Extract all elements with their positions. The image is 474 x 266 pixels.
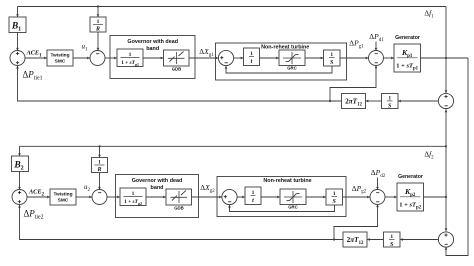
wire Df1 right loop to tie sum 2 (445, 58, 468, 256)
svg-text:1: 1 (129, 52, 132, 58)
label DXg1 (199, 47, 214, 58)
block integrator 1/S turbine 1 (324, 50, 341, 66)
block GRC 2 (rate limiter) (280, 189, 306, 210)
label DPd2 (371, 168, 386, 179)
wire turbine sum to 1/t (234, 57, 244, 60)
wire generator 2 output Df2 (424, 196, 448, 198)
block governor with dead band 1 (outer) (110, 36, 195, 79)
svg-text:SMC: SMC (58, 198, 69, 204)
svg-text:Generator: Generator (398, 174, 423, 180)
summing junction ACE1 (10, 51, 25, 66)
label DPg2 (352, 184, 367, 195)
svg-text:GDB: GDB (172, 67, 182, 72)
wire ACE to SMC (27, 196, 50, 199)
wire DPtie1 to ACE sum (16, 66, 341, 101)
wire 1/R2 to governor sum (98, 173, 101, 190)
wire tie sum to 1/S 1 (398, 100, 438, 103)
label DPtie1 (23, 70, 43, 82)
wire B2 to ACE sum (18, 172, 21, 190)
wire 1/t to GRC (261, 196, 280, 199)
summing junction tie frequency compare 2 (438, 232, 453, 247)
svg-text:Non-reheat turbine: Non-reheat turbine (263, 178, 311, 184)
label Df2 (424, 150, 434, 161)
label ACE2 (28, 189, 45, 198)
svg-text:GRC: GRC (287, 66, 297, 71)
summing junction governor input 2 (92, 190, 107, 205)
wire u1 (73, 57, 90, 60)
wire u2 (76, 196, 92, 199)
wire 1/t to GRC (260, 57, 280, 60)
wire generator sum to generator (384, 57, 395, 60)
block non-reheat turbine 2 (outer) (217, 177, 346, 217)
wire Df1 feedback top line (18, 6, 447, 8)
svg-text:Governor with dead: Governor with dead (132, 178, 183, 184)
summing junction tie frequency compare 1 (438, 93, 453, 108)
svg-text:R: R (96, 167, 101, 173)
summing junction turbine 2 (222, 189, 237, 204)
svg-text:1 + sTg2: 1 + sTg2 (124, 199, 142, 206)
block Twisting SMC 2 (50, 189, 76, 205)
wire turbine sum to 1/t (237, 196, 245, 199)
wire tie sum to 1/S 2 (400, 238, 438, 241)
svg-text:GDB: GDB (174, 206, 184, 211)
wire DPtie1 branch to generator sum (329, 65, 377, 102)
label Generator 1 (395, 35, 420, 41)
block 2piT12 1 (342, 94, 366, 109)
block B1 (9, 17, 26, 33)
block generator Kp1/(1+sTp1) (394, 44, 421, 72)
block 1/t 2 (245, 187, 261, 205)
wire generator sum to generator (385, 196, 397, 199)
label DPd1 (369, 32, 384, 43)
label DXg2 (200, 183, 215, 194)
wire DPg2 (343, 196, 371, 199)
block 1/t 1 (244, 48, 260, 66)
wire DPtie2 branch to generator sum (333, 204, 379, 240)
svg-text:GRC: GRC (288, 205, 298, 210)
svg-text:Governor with dead: Governor with dead (127, 39, 178, 45)
block 2piT12 2 (343, 232, 367, 247)
svg-text:SMC: SMC (55, 59, 66, 65)
block Twisting SMC 1 (47, 50, 73, 66)
wire 1/S to 2piT12 1 (366, 100, 382, 103)
wire 1/R1 to governor sum (97, 32, 100, 51)
block GDB 1 (dead band) (164, 50, 190, 72)
wire 1/S to 2piT12 2 (367, 238, 384, 241)
wire GRC to 1/S (306, 196, 326, 199)
block non-reheat turbine 1 (outer) (216, 43, 347, 80)
svg-text:1: 1 (333, 191, 336, 197)
label Df1 (424, 9, 434, 20)
block generator Kp2/(1+sTp2) (397, 183, 424, 211)
wire topline to 1/R2 (98, 145, 101, 157)
summing junction generator input 2 (370, 190, 385, 205)
label u2 (84, 183, 91, 193)
block integrator 1/S turbine 2 (326, 189, 343, 205)
wire governor sum to governor (105, 57, 117, 60)
block B2 (12, 156, 29, 172)
label Generator 2 (398, 174, 423, 180)
svg-text:1: 1 (250, 51, 253, 57)
wire Df2 bus (445, 146, 448, 231)
wire DPtie2 to ACE sum (18, 205, 343, 240)
label DPg1 (349, 39, 364, 50)
svg-text:1: 1 (98, 160, 101, 166)
label u1 (82, 43, 89, 53)
block tie integrator 1/S 2 (384, 232, 401, 248)
svg-text:band: band (151, 185, 164, 191)
svg-text:Generator: Generator (395, 35, 420, 41)
wire DXg2 (192, 196, 222, 199)
label ACE1 (25, 50, 42, 59)
wire governor sum to governor (107, 196, 120, 199)
svg-text:Twisting: Twisting (53, 192, 72, 198)
block 1/R1 (90, 17, 106, 33)
svg-text:R: R (95, 27, 100, 33)
wire B1 to ACE sum (16, 33, 19, 51)
wire topline to B2 (18, 146, 21, 156)
wire DPd2 input (376, 178, 379, 190)
wire GRC to 1/S (305, 57, 324, 60)
block 1/R2 (92, 158, 108, 174)
wire Df2 up from branch to tie sum 1 (445, 109, 448, 148)
block governor transfer function 1/(1+sTg2) (120, 188, 146, 206)
wire turbine 1 feedback (225, 66, 332, 73)
svg-text:1: 1 (388, 96, 391, 102)
block governor transfer function 1/(1+sTg1) (117, 49, 143, 67)
wire generator 1 output Df1 (421, 57, 469, 59)
wire topline to B1 (16, 7, 19, 18)
svg-text:1: 1 (390, 234, 393, 240)
summing junction turbine 1 (218, 50, 233, 65)
wire DPg1 (340, 57, 369, 60)
label DPtie2 (24, 209, 44, 221)
wire turbine 2 feedback (228, 205, 334, 212)
summing junction governor input 1 (90, 51, 105, 66)
wire ACE to SMC (25, 57, 47, 60)
wire TF to GDB (143, 57, 164, 60)
svg-text:1: 1 (252, 190, 255, 196)
block governor with dead band 2 (outer) (116, 175, 199, 218)
svg-text:1 + sTg1: 1 + sTg1 (121, 60, 139, 67)
wire DXg1 (189, 57, 218, 60)
block tie integrator 1/S 1 (382, 94, 399, 110)
svg-text:1: 1 (132, 191, 135, 197)
svg-text:band: band (146, 46, 159, 52)
block GDB 2 (dead band) (166, 189, 192, 211)
block GRC 1 (rate limiter) (279, 50, 305, 71)
svg-text:Twisting: Twisting (50, 53, 69, 59)
wire Df2 feedback top line (20, 145, 447, 147)
svg-text:1: 1 (330, 52, 333, 58)
summing junction generator input 1 (369, 51, 384, 66)
wire TF to GDB (146, 196, 166, 199)
wire Df1 bus down to tie sum 1 (445, 7, 448, 94)
wire DPd1 input (375, 42, 378, 51)
svg-text:1: 1 (97, 19, 100, 25)
summing junction ACE2 (12, 190, 27, 205)
wire topline to 1/R1 (97, 5, 100, 17)
